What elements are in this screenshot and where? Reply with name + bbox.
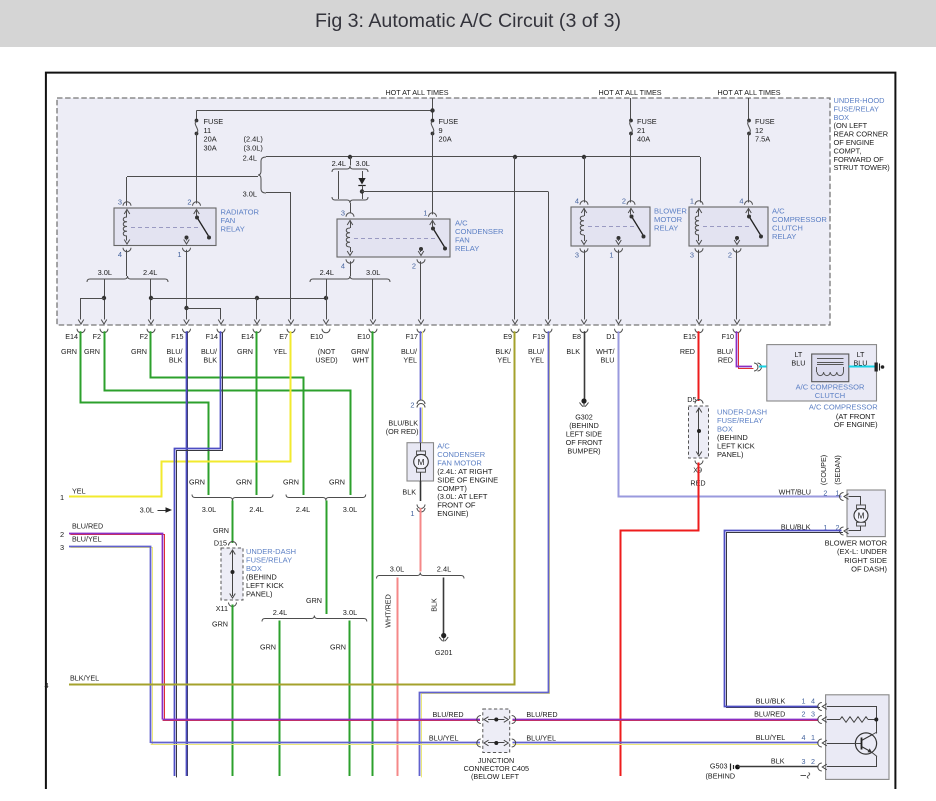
wire GRN 2.4L leg down: [279, 621, 281, 777]
svg-text:CLUTCH: CLUTCH: [815, 391, 845, 400]
svg-text:GRN: GRN: [330, 643, 346, 652]
brace engine-variant split at radiator relay pin 3: [258, 157, 266, 193]
svg-text:E7: E7: [279, 332, 288, 341]
title bar: [0, 0, 936, 47]
svg-text:4: 4: [739, 197, 743, 206]
svg-text:HOT AT ALL TIMES: HOT AT ALL TIMES: [717, 88, 780, 97]
wire condenser relay pin 4 to split brace: [350, 261, 352, 276]
blower motor pin BLU/BLK: [860, 526, 862, 531]
wire feed to fuse 9 from top: [432, 98, 434, 120]
wire GRN/WHT from E10 down: [372, 331, 374, 776]
wire fuse 11 to radiator fan relay pin 2: [196, 134, 198, 204]
svg-text:OF ENGINE): OF ENGINE): [834, 420, 878, 429]
svg-text:4: 4: [575, 197, 579, 206]
svg-text:FUSE: FUSE: [204, 117, 224, 126]
diode D (3.0L branch): [362, 171, 364, 178]
svg-text:GRN: GRN: [189, 478, 205, 487]
brace split GRN wire (2.4L/3.0L): [262, 616, 367, 622]
relay A/C CONDENSER FAN RELAY body: [337, 219, 450, 257]
svg-text:YEL: YEL: [530, 356, 544, 365]
resistor box pin 4/1: [818, 739, 822, 747]
svg-text:2.4L: 2.4L: [437, 565, 451, 574]
wire fuse 21 to blower motor relay pin 2: [630, 134, 632, 203]
svg-text:F10: F10: [722, 332, 734, 341]
connector E9 at fuse box edge: [512, 320, 518, 325]
svg-text:1: 1: [811, 733, 815, 742]
svg-text:GRN: GRN: [283, 478, 299, 487]
svg-text:3.0L: 3.0L: [98, 268, 112, 277]
svg-text:1: 1: [410, 509, 414, 518]
svg-text:30A: 30A: [204, 143, 217, 152]
node junction above fuse 9: [430, 108, 434, 112]
svg-text:BUMPER): BUMPER): [567, 446, 600, 455]
svg-text:3: 3: [575, 251, 579, 260]
wire YEL from E7 to left edge stub 1: [69, 331, 291, 496]
wire 3.0L leg to F2: [104, 279, 106, 320]
wire WHT/RED 3.0L leg down: [397, 578, 399, 777]
svg-text:(3.0L): (3.0L): [244, 143, 263, 152]
svg-text:GRN: GRN: [306, 596, 322, 605]
svg-text:BLK: BLK: [402, 488, 416, 497]
svg-text:BLK: BLK: [430, 598, 439, 612]
svg-text:X11: X11: [216, 604, 228, 613]
svg-text:HOT AT ALL TIMES: HOT AT ALL TIMES: [385, 88, 448, 97]
wire blower relay pin 3 to E8: [584, 250, 586, 320]
wire clutch relay pin 2 to F10: [736, 250, 738, 320]
svg-text:E14: E14: [65, 332, 78, 341]
connector F14 at fuse box edge: [218, 320, 224, 325]
wire 2.4L leg to E10 (not used): [326, 279, 328, 320]
node cross-feed join at E10 leg: [324, 296, 328, 300]
wire bus drop to blower relay pin 4: [584, 157, 586, 203]
svg-text:21: 21: [637, 126, 645, 135]
wire radiator relay pin 4 to split brace: [126, 250, 128, 276]
svg-text:GRN: GRN: [329, 478, 345, 487]
connector E10 at fuse box edge: [323, 320, 329, 325]
wire GRN brace stem to D15: [232, 501, 234, 544]
wire bus drop to E9: [514, 157, 516, 320]
relay A/C COMPRESSOR CLUTCH RELAY switch: [745, 201, 753, 205]
svg-text:BLU/BLK: BLU/BLK: [756, 696, 786, 705]
svg-text:11: 11: [204, 126, 212, 135]
svg-text:F2: F2: [140, 332, 148, 341]
svg-text:ENGINE): ENGINE): [437, 509, 469, 518]
svg-text:PANEL): PANEL): [717, 450, 744, 459]
svg-text:WHT/RED: WHT/RED: [384, 594, 393, 628]
svg-text:2: 2: [823, 489, 827, 498]
diode branch bracket top: [350, 157, 352, 166]
svg-text:3.0L: 3.0L: [140, 506, 154, 515]
svg-text:2: 2: [728, 251, 732, 260]
under-hood fuse/relay box (dashed): [57, 98, 830, 325]
wire BLU/BLK blower motor to resistor box: [727, 533, 843, 708]
wire BLK from E8 to ground G302: [584, 331, 586, 399]
ground G302: [581, 398, 586, 403]
relay BLOWER MOTOR RELAY internal dashed link: [588, 226, 634, 228]
svg-text:RIGHT SIDE: RIGHT SIDE: [844, 556, 887, 565]
wire BLU/YEL stub 3 to junction riser: [70, 548, 152, 745]
a/c compressor assembly box: [767, 345, 877, 401]
connector bullet at clutch feed: [754, 363, 758, 371]
svg-text:BLU: BLU: [791, 359, 805, 368]
svg-text:40A: 40A: [637, 135, 650, 144]
svg-text:2.4L: 2.4L: [143, 268, 157, 277]
svg-text:E8: E8: [572, 332, 581, 341]
connector E15 at fuse box edge: [696, 320, 702, 325]
relay RADIATOR FAN RELAY internal dashed link: [131, 227, 200, 229]
svg-text:E9: E9: [503, 332, 512, 341]
svg-text:GRN: GRN: [212, 620, 228, 629]
resistor box pin 2/3: [818, 716, 822, 724]
wire GRN from E14 straight down: [256, 331, 258, 495]
svg-text:4: 4: [341, 262, 345, 271]
brace merge GRN wires (right pair): [286, 495, 366, 501]
wire 3.0L branch: [266, 192, 291, 194]
svg-text:HOT AT ALL TIMES: HOT AT ALL TIMES: [598, 88, 661, 97]
svg-text:USED): USED): [315, 356, 337, 365]
ground G201: [441, 633, 446, 638]
svg-text:F14: F14: [206, 332, 218, 341]
blower resistor / power transistor box: [826, 695, 889, 780]
svg-text:3.0L: 3.0L: [243, 190, 257, 199]
wire GRN from X11 down: [232, 605, 234, 777]
connector F19 at fuse box edge: [545, 320, 551, 325]
wire diode output to F19 drop: [362, 191, 548, 193]
wire fuse 12 to a/c compressor clutch relay pin 4: [748, 134, 750, 203]
wire 2.4L bus: [266, 156, 700, 158]
resistor element: [827, 706, 877, 708]
svg-text:YEL: YEL: [273, 347, 287, 356]
svg-text:GRN: GRN: [84, 347, 100, 356]
svg-text:GRN: GRN: [237, 347, 253, 356]
wire feed to fuse 12 from top: [748, 98, 750, 120]
wire BLU/RED from F10 to compressor clutch: [739, 333, 754, 369]
fuse F21: [629, 119, 633, 123]
connector at condenser fan motor pin 1: [417, 505, 425, 509]
connector D1 at fuse box edge: [616, 320, 622, 325]
svg-text:2.4L: 2.4L: [332, 159, 346, 168]
wire BLK motor pigtail: [420, 481, 422, 501]
svg-text:3.0L: 3.0L: [343, 505, 357, 514]
svg-text:GRN: GRN: [61, 347, 77, 356]
svg-text:RELAY: RELAY: [654, 224, 678, 233]
wire BLU/YEL through junction to resistor box: [151, 744, 480, 746]
relay A/C CONDENSER FAN RELAY switch: [429, 213, 437, 217]
svg-text:4: 4: [118, 250, 122, 259]
svg-text:RELAY: RELAY: [455, 244, 479, 253]
wire blower relay pin 1 to D1: [618, 250, 620, 320]
resistor box pin 1/4: [818, 703, 822, 711]
svg-text:1: 1: [423, 209, 427, 218]
svg-text:M: M: [858, 512, 865, 521]
wire clutch relay pin 3 to E15: [698, 250, 700, 320]
svg-text:FUSE: FUSE: [755, 117, 775, 126]
motor M1 a/c condenser fan motor: [407, 443, 434, 481]
wire radiator relay pin 1 to F15: [186, 250, 188, 320]
wire 2.4L bus drop to clutch relay pin 1: [700, 157, 702, 203]
svg-text:2: 2: [187, 198, 191, 207]
connector F17 at fuse box edge: [418, 320, 424, 325]
wire LT BLU out of clutch coil: [849, 366, 876, 368]
wire GRN brace stem down: [326, 501, 328, 615]
connector F10 at fuse box edge: [734, 320, 740, 325]
terminal at compressor body: [875, 363, 878, 372]
svg-text:RED: RED: [680, 347, 695, 356]
svg-text:2: 2: [802, 709, 806, 718]
svg-text:1: 1: [177, 250, 181, 259]
relay BLOWER MOTOR RELAY switch: [627, 201, 635, 205]
wire RED from E15 to under-dash box D5: [698, 331, 700, 401]
wire GRN from E14 to 3.0L brace leg: [81, 331, 209, 495]
svg-text:7.5A: 7.5A: [755, 135, 770, 144]
wire BLU/BLK from F15 down: [187, 331, 189, 776]
wire WHT/BLU from D1 to blower motor: [619, 331, 842, 496]
fuse F11: [195, 119, 199, 123]
svg-text:1: 1: [690, 197, 694, 206]
svg-text:3: 3: [60, 543, 64, 552]
wire WHT/RED from motor to split brace: [420, 508, 422, 572]
connector E7 at fuse box edge: [288, 320, 294, 325]
relay A/C COMPRESSOR CLUTCH RELAY internal dashed link: [703, 226, 752, 228]
svg-text:F15: F15: [171, 332, 183, 341]
svg-text:3: 3: [690, 251, 694, 260]
svg-text:2: 2: [811, 757, 815, 766]
svg-text:BLK: BLK: [566, 347, 580, 356]
svg-text:BLOWER MOTOR: BLOWER MOTOR: [825, 539, 888, 548]
svg-text:YEL: YEL: [403, 356, 417, 365]
svg-text:BLK: BLK: [203, 356, 217, 365]
svg-text:G503: G503: [710, 762, 728, 771]
wire GRN from F2 to 2.4L brace leg (left): [151, 331, 304, 495]
node 2.4L bus at blower relay pin 4: [582, 155, 586, 159]
wire BLK 2.4L leg to ground: [443, 578, 445, 634]
svg-text:(BELOW LEFT: (BELOW LEFT: [471, 772, 520, 781]
svg-text:BLK: BLK: [169, 356, 183, 365]
svg-text:BLU/YEL: BLU/YEL: [526, 734, 556, 743]
junction connector C405: [483, 709, 510, 753]
svg-text:D15: D15: [214, 539, 227, 548]
a/c compressor clutch coil: [812, 354, 849, 382]
connector F15 at fuse box edge: [184, 320, 190, 325]
svg-text:BLK: BLK: [771, 757, 785, 766]
wire BLU/RED through junction to resistor box: [513, 720, 819, 722]
svg-text:2: 2: [410, 401, 414, 410]
svg-text:D1: D1: [606, 332, 615, 341]
svg-text:FUSE: FUSE: [439, 117, 459, 126]
svg-text:(EX-L: UNDER: (EX-L: UNDER: [837, 547, 888, 556]
svg-text:BLU: BLU: [601, 356, 615, 365]
svg-text:E15: E15: [683, 332, 696, 341]
node split to E14: [102, 296, 106, 300]
wire top bus to fuse 11: [197, 110, 433, 112]
power transistor: [855, 733, 876, 754]
connector E10 at fuse box edge: [370, 320, 376, 325]
svg-text:BLU/RED: BLU/RED: [432, 710, 463, 719]
svg-text:9: 9: [439, 126, 443, 135]
svg-text:2.4L: 2.4L: [296, 505, 310, 514]
wire GRN from F2 to 2.4L brace leg (right): [105, 331, 351, 495]
fuse F12: [747, 119, 751, 123]
svg-text:2.4L: 2.4L: [273, 608, 287, 617]
svg-text:STRUT TOWER): STRUT TOWER): [834, 163, 890, 172]
svg-text:BLU/RED: BLU/RED: [72, 522, 103, 531]
blower motor pin WHT/BLU: [840, 493, 844, 501]
svg-text:Fig 3: Automatic A/C Circuit (: Fig 3: Automatic A/C Circuit (3 of 3): [315, 10, 621, 32]
svg-text:BLU/BLK: BLU/BLK: [781, 523, 811, 532]
svg-text:RELAY: RELAY: [772, 232, 796, 241]
svg-text:OF DASH): OF DASH): [851, 565, 887, 574]
brace split WHT/RED (3.0L/2.4L): [377, 573, 465, 579]
relay BLOWER MOTOR RELAY coil: [580, 201, 588, 205]
svg-text:3: 3: [811, 709, 815, 718]
wire radiator relay pin 3 riser: [126, 177, 128, 206]
node 2.4L bus at E9 drop: [513, 155, 517, 159]
brace merge GRN wires (left pair): [192, 495, 273, 501]
resistor box bottom edge marks: [801, 775, 807, 777]
wire 3.0L branch drop to E7: [290, 193, 292, 320]
svg-text:(SEDAN): (SEDAN): [833, 455, 842, 485]
svg-text:G201: G201: [435, 648, 453, 657]
svg-text:BLU/YEL: BLU/YEL: [429, 734, 459, 743]
svg-text:2.4L: 2.4L: [243, 154, 257, 163]
svg-text:E14: E14: [241, 332, 254, 341]
svg-text:E10: E10: [357, 332, 370, 341]
wire drop to fuse 11: [196, 111, 198, 121]
svg-text:3.0L: 3.0L: [202, 505, 216, 514]
connector F2 at fuse box edge: [148, 320, 154, 325]
svg-text:BLK/YEL: BLK/YEL: [70, 674, 99, 683]
resistor box pin 3/2: [818, 763, 822, 771]
diode branch bracket bottom: [332, 197, 368, 203]
wire BLU/YEL from F19 jog down: [422, 333, 550, 778]
svg-text:BLU/RED: BLU/RED: [754, 709, 785, 718]
svg-text:1: 1: [836, 489, 840, 498]
svg-text:GRN: GRN: [236, 478, 252, 487]
wire BLU/RED stub 2 to junction riser: [70, 535, 164, 721]
connector E14 at fuse box edge: [254, 320, 260, 325]
svg-text:E10: E10: [310, 332, 323, 341]
svg-text:1: 1: [60, 493, 64, 502]
wire 2.4L leg to F2: [150, 279, 152, 320]
wire BLK/YEL from E9 to left edge stub 4: [69, 331, 515, 684]
svg-text:WHT: WHT: [353, 356, 370, 365]
relay A/C CONDENSER FAN RELAY internal dashed link: [354, 238, 436, 240]
relay BLOWER MOTOR RELAY body: [571, 207, 650, 246]
wire condenser relay pin 2 to F17: [420, 261, 422, 319]
svg-text:3.0L: 3.0L: [390, 565, 404, 574]
wire diode bypass branch (2.4L): [338, 171, 340, 199]
relay A/C COMPRESSOR CLUTCH RELAY coil: [695, 201, 703, 205]
svg-text:1: 1: [609, 251, 613, 260]
svg-text:3.0L: 3.0L: [366, 268, 380, 277]
svg-text:GRN: GRN: [260, 643, 276, 652]
wire RED from X9 down and left to riser: [621, 463, 699, 777]
svg-text:2: 2: [60, 530, 64, 539]
svg-text:(2.4L): (2.4L): [244, 135, 263, 144]
svg-text:1: 1: [802, 696, 806, 705]
svg-text:YEL: YEL: [72, 487, 86, 496]
svg-text:RED: RED: [718, 356, 733, 365]
relay RADIATOR FAN RELAY switch: [193, 202, 201, 206]
svg-text:4: 4: [802, 733, 806, 742]
svg-text:F19: F19: [533, 332, 545, 341]
svg-text:GRN: GRN: [131, 347, 147, 356]
svg-text:WHT/BLU: WHT/BLU: [779, 488, 811, 497]
wire cross-feed to E14 and E10: [151, 298, 326, 300]
wire GRN 3.0L leg down: [349, 621, 351, 777]
node 2.4L bus at diode branch: [348, 155, 352, 159]
wire BLU/YEL from F17 to condenser fan motor: [422, 331, 424, 400]
svg-text:BLU/YEL: BLU/YEL: [756, 733, 786, 742]
svg-text:12: 12: [755, 126, 763, 135]
svg-text:(OR RED): (OR RED): [386, 427, 419, 436]
wire feed to fuse 21 from top: [630, 98, 632, 120]
svg-text:F17: F17: [406, 332, 418, 341]
node cross-feed at E14: [255, 296, 259, 300]
svg-text:3: 3: [802, 757, 806, 766]
svg-text:20A: 20A: [204, 135, 217, 144]
svg-text:M: M: [418, 458, 425, 467]
svg-text:A/C COMPRESSOR: A/C COMPRESSOR: [809, 403, 878, 412]
svg-text:FUSE: FUSE: [637, 117, 657, 126]
svg-text:2: 2: [412, 262, 416, 271]
node diode output: [360, 189, 364, 193]
node pin 1 split to F14: [184, 306, 188, 310]
svg-text:GRN: GRN: [213, 526, 229, 535]
svg-text:20A: 20A: [439, 135, 452, 144]
svg-text:3: 3: [118, 198, 122, 207]
svg-text:YEL: YEL: [497, 356, 511, 365]
svg-text:BLU/YEL: BLU/YEL: [72, 535, 102, 544]
relay RADIATOR FAN RELAY coil: [123, 202, 131, 206]
connector E8 at fuse box edge: [581, 320, 587, 325]
svg-text:2.4L: 2.4L: [320, 268, 334, 277]
svg-text:(COUPE): (COUPE): [819, 455, 828, 485]
wire 3.0L leg to E10: [372, 279, 374, 320]
connector E14 at fuse box edge: [78, 320, 84, 325]
svg-text:4: 4: [811, 696, 815, 705]
relay A/C COMPRESSOR CLUTCH RELAY body: [689, 207, 768, 246]
svg-text:3.0L: 3.0L: [343, 608, 357, 617]
svg-text:3.0L: 3.0L: [356, 159, 370, 168]
svg-text:2.4L: 2.4L: [249, 505, 263, 514]
relay A/C CONDENSER FAN RELAY coil: [346, 213, 354, 217]
wire BLK from G503 to resistor box: [738, 766, 819, 768]
fuse F9: [431, 119, 435, 123]
svg-text:PANEL): PANEL): [246, 590, 273, 599]
node 2.4L leg cross-feed: [149, 296, 153, 300]
svg-text:2: 2: [622, 197, 626, 206]
svg-text:BLU/RED: BLU/RED: [526, 710, 557, 719]
svg-text:F2: F2: [93, 332, 101, 341]
wire BLU/BLK from F14 jog down: [177, 333, 223, 778]
svg-text:3: 3: [341, 209, 345, 218]
svg-text:(BEHIND: (BEHIND: [706, 771, 736, 780]
relay RADIATOR FAN RELAY body: [114, 208, 216, 246]
svg-text:RELAY: RELAY: [221, 225, 245, 234]
wire branch to E14: [81, 298, 104, 300]
connector F2 at fuse box edge: [101, 320, 107, 325]
motor M2 blower motor: [847, 490, 885, 537]
wire LT BLU into compressor clutch: [759, 366, 812, 368]
svg-text:4: 4: [44, 681, 48, 690]
wire fuse 9 to a/c condenser fan relay pin 1: [432, 134, 434, 215]
